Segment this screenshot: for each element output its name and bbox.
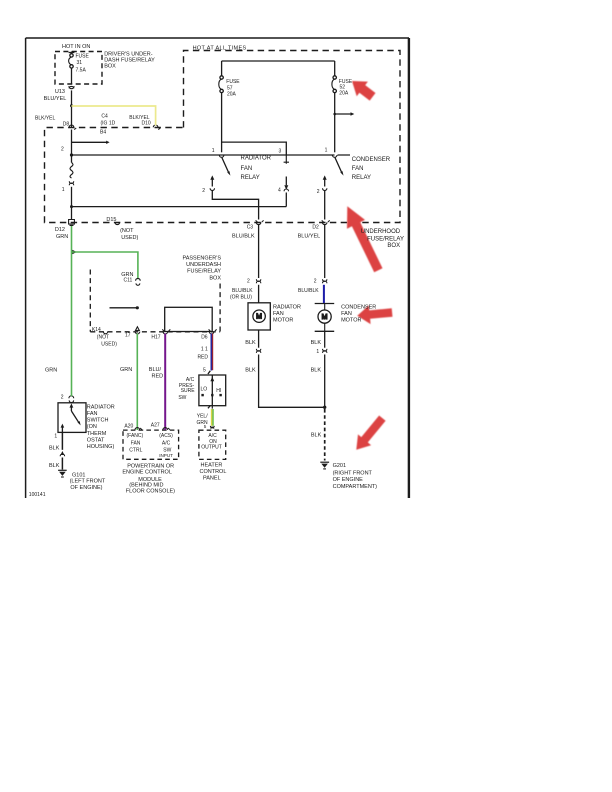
- svg-text:UNDERDASH: UNDERDASH: [186, 262, 221, 268]
- svg-text:D6: D6: [201, 335, 208, 341]
- connector D on underhood box bottom: [322, 220, 330, 224]
- svg-text:31: 31: [77, 60, 83, 66]
- svg-text:1: 1: [212, 148, 215, 154]
- svg-text:BLK: BLK: [311, 368, 322, 374]
- wire BLU/YEL down to D8: [71, 90, 73, 127]
- svg-text:FAN: FAN: [352, 166, 364, 172]
- fuse 57 20A: [219, 61, 224, 152]
- annotation red arrow at underhood box: [347, 206, 383, 272]
- node: BLK junction: [323, 406, 326, 409]
- svg-text:HI: HI: [216, 388, 221, 394]
- svg-text:BLK: BLK: [49, 463, 60, 469]
- svg-text:BLU/YEL: BLU/YEL: [44, 96, 67, 102]
- connector A27 on ECM box: [163, 428, 170, 430]
- inline connector below coil: [69, 181, 73, 185]
- svg-text:C3: C3: [247, 224, 254, 230]
- svg-text:1: 1: [54, 433, 57, 439]
- svg-text:BLU/BLK: BLU/BLK: [232, 233, 255, 239]
- wire GRN from connector 17 to ECM pin A20: [136, 334, 138, 431]
- svg-text:BLU/: BLU/: [149, 367, 162, 373]
- svg-text:FUSE: FUSE: [76, 54, 90, 60]
- svg-text:CONDENSER: CONDENSER: [341, 304, 376, 310]
- svg-text:YEL/: YEL/: [197, 414, 208, 420]
- radiator fan relay pin2 contact arrow: [211, 179, 213, 187]
- fuse F-driver 7.5A in driver's box: [69, 52, 75, 85]
- border frame: [26, 38, 409, 498]
- svg-text:PANEL: PANEL: [203, 475, 221, 481]
- node: rail junction at relay coil: [70, 153, 73, 156]
- svg-text:HOT AT ALL TIMES: HOT AT ALL TIMES: [193, 45, 247, 51]
- joint connector C1: [136, 278, 141, 285]
- svg-text:4: 4: [278, 188, 281, 194]
- svg-text:(NOT: (NOT: [97, 334, 109, 340]
- svg-text:1: 1: [316, 349, 319, 355]
- pin4 contact arrow (down): [285, 177, 287, 186]
- connector A20 on ECM box: [135, 428, 142, 430]
- annotation red arrow at fuse 52: [352, 81, 376, 101]
- inline connector on YEL/GRN wire: [210, 426, 214, 429]
- connector D6 on passenger box: [209, 329, 217, 334]
- wire BLU/RED from D6 to A/C pressure switch: [210, 334, 212, 371]
- svg-text:BOX: BOX: [387, 243, 400, 249]
- svg-text:CONTROL: CONTROL: [200, 469, 227, 475]
- svg-text:FAN: FAN: [273, 311, 284, 317]
- svg-text:BOX: BOX: [209, 276, 221, 282]
- wire pin2 to C connector: [212, 191, 258, 220]
- svg-text:U13: U13: [55, 89, 65, 95]
- svg-text:(ACS): (ACS): [159, 433, 173, 439]
- svg-text:FAN: FAN: [131, 441, 141, 447]
- radiator fan switch S1: [58, 403, 86, 433]
- connector U13 at driver's box bottom: [69, 86, 74, 89]
- wire BLK below switch: [61, 432, 63, 449]
- wire YEL/GRN below pressure switch: [211, 409, 213, 426]
- driver's under-dash fuse/relay box (dashed): [55, 52, 102, 85]
- rail wire BLK/YEL y=155: [72, 154, 351, 156]
- ground G101: [58, 470, 67, 477]
- svg-text:BOX: BOX: [104, 63, 116, 69]
- svg-text:OF ENGINE: OF ENGINE: [333, 477, 364, 483]
- annotation red arrow at ground G201: [356, 416, 385, 450]
- connector D10 on underhood box: [153, 125, 160, 130]
- ECM dashed box: [123, 430, 179, 459]
- svg-text:RADIATOR: RADIATOR: [273, 304, 301, 310]
- underhood fuse/relay box (dashed outline): [45, 51, 401, 223]
- wire BLK dashed to ground G201: [324, 409, 326, 461]
- svg-text:B4: B4: [100, 130, 106, 136]
- svg-text:5: 5: [203, 368, 206, 374]
- svg-text:17: 17: [125, 332, 131, 338]
- wire GRN branch to joint connector C1: [72, 252, 138, 279]
- svg-text:FAN: FAN: [241, 166, 253, 172]
- svg-text:OSTAT: OSTAT: [87, 437, 105, 443]
- svg-text:C11: C11: [124, 278, 133, 284]
- svg-text:RADIATOR: RADIATOR: [241, 156, 272, 162]
- svg-text:FUSE: FUSE: [226, 79, 240, 85]
- svg-text:20A: 20A: [227, 91, 237, 97]
- svg-text:100141: 100141: [29, 492, 46, 498]
- connector D8 on underhood box: [69, 125, 76, 130]
- node: junction with relay common wire: [70, 205, 73, 208]
- connector below pressure switch: [208, 406, 212, 409]
- relay block box in passenger box: [165, 307, 213, 331]
- wire relay common y=206.6: [72, 206, 287, 208]
- svg-text:2: 2: [202, 188, 205, 194]
- wire BLK below radiator fan motor: [258, 330, 260, 348]
- svg-text:GRN: GRN: [45, 368, 57, 374]
- wire D8 down into underhood box: [71, 130, 73, 163]
- radiator fan relay arm: [222, 158, 229, 174]
- node: yellow tap junction: [70, 104, 73, 107]
- annotation red arrow at condenser fan motor: [357, 305, 392, 324]
- svg-text:K14: K14: [92, 327, 101, 333]
- svg-text:2: 2: [317, 189, 320, 195]
- svg-text:FAN: FAN: [87, 411, 98, 417]
- svg-text:BLK: BLK: [49, 446, 60, 452]
- svg-text:(OR BLU): (OR BLU): [230, 294, 252, 300]
- svg-text:CTRL: CTRL: [129, 448, 142, 454]
- svg-text:3: 3: [279, 149, 282, 155]
- svg-text:(IG 1D: (IG 1D: [101, 121, 116, 127]
- wire stub B4 with arrow: [72, 141, 107, 143]
- A/C ON OUTPUT dashed box (heater control panel): [199, 430, 226, 459]
- svg-text:D10: D10: [142, 121, 151, 127]
- wire coil to D12: [71, 187, 73, 220]
- radiator fan switch connector: [69, 396, 74, 403]
- svg-text:BLK: BLK: [245, 368, 256, 374]
- svg-text:SURE: SURE: [181, 388, 196, 394]
- radiator fan motor M1: [248, 303, 270, 330]
- connector C on underhood box bottom: [256, 220, 264, 224]
- svg-text:(BEHIND MID: (BEHIND MID: [129, 482, 163, 488]
- svg-text:OF ENGINE): OF ENGINE): [70, 485, 102, 491]
- svg-text:(LEFT FRONT: (LEFT FRONT: [70, 479, 106, 485]
- svg-text:2: 2: [61, 395, 64, 401]
- radiator fan relay coil (squiggle): [70, 163, 73, 179]
- connector K14 (not used) on passenger box: [103, 332, 107, 334]
- svg-text:INPUT: INPUT: [159, 453, 173, 458]
- svg-text:HOUSING): HOUSING): [87, 444, 115, 450]
- ground G201: [320, 462, 329, 469]
- svg-text:MOTOR: MOTOR: [273, 317, 293, 323]
- wire BLU/BLK to radiator fan motor: [258, 225, 260, 279]
- svg-text:D2: D2: [312, 224, 319, 230]
- condenser fan motor M2: [315, 304, 335, 332]
- svg-text:SWITCH: SWITCH: [87, 418, 109, 424]
- svg-text:1: 1: [62, 187, 65, 193]
- wire pin2 to D connector: [324, 191, 326, 220]
- connector D12 on underhood box bottom: [69, 220, 75, 226]
- svg-text:G201: G201: [333, 463, 346, 469]
- connector D15 (not used): [115, 222, 120, 224]
- svg-text:5: 5: [204, 424, 207, 429]
- svg-text:(RIGHT FRONT: (RIGHT FRONT: [333, 470, 373, 476]
- svg-text:FUSE/RELAY: FUSE/RELAY: [187, 268, 221, 274]
- svg-text:BLK: BLK: [311, 433, 322, 439]
- condenser relay pin2 contact arrow: [324, 179, 326, 187]
- svg-text:D8: D8: [63, 122, 70, 128]
- svg-text:(NOT: (NOT: [120, 228, 134, 234]
- wire BLU/YEL to condenser fan motor: [324, 225, 326, 279]
- svg-text:GRN: GRN: [56, 234, 68, 240]
- svg-text:RED: RED: [152, 374, 164, 380]
- svg-text:BLU/BLK: BLU/BLK: [298, 288, 319, 294]
- svg-text:PASSENGER'S: PASSENGER'S: [182, 255, 221, 261]
- passenger's underdash fuse/relay box (dashed, open top): [89, 270, 91, 332]
- svg-text:USED): USED): [101, 342, 117, 348]
- connector H17 on passenger box: [162, 329, 170, 334]
- node: green tap arrow: [72, 250, 76, 255]
- svg-text:HOT IN ON: HOT IN ON: [62, 44, 90, 50]
- svg-text:M: M: [256, 314, 262, 321]
- node: tap on fuse52 wire: [333, 113, 336, 116]
- connector 17 (green wire) on passenger box: [135, 327, 140, 334]
- svg-text:USED): USED): [121, 235, 138, 241]
- svg-text:ENGINE CONTROL: ENGINE CONTROL: [122, 469, 172, 475]
- bus wire HOT AT ALL TIMES: [222, 60, 335, 62]
- svg-text:FLOOR CONSOLE): FLOOR CONSOLE): [126, 489, 175, 495]
- svg-text:BLK: BLK: [311, 340, 322, 346]
- svg-text:RELAY: RELAY: [352, 175, 371, 181]
- svg-text:C4: C4: [101, 113, 108, 119]
- svg-text:A20: A20: [124, 423, 133, 429]
- wire branch fuse57 to pin3: [222, 142, 287, 155]
- fuse 52 20A: [332, 61, 337, 152]
- inline connector on condenser fan motor wire: [322, 279, 326, 283]
- svg-text:(ON: (ON: [87, 424, 97, 430]
- pin3-pin4 link of condenser relay coil: [284, 155, 289, 164]
- inline connector 1: [322, 349, 326, 353]
- svg-text:FAN: FAN: [341, 311, 352, 317]
- svg-text:7.5A: 7.5A: [76, 68, 87, 74]
- svg-text:M: M: [322, 314, 328, 321]
- svg-text:1: 1: [325, 148, 328, 154]
- svg-text:1 1: 1 1: [201, 346, 208, 352]
- radiator fan relay contact pivot: [219, 155, 224, 157]
- svg-text:BLU/BLK: BLU/BLK: [232, 288, 253, 294]
- inline connector: [256, 349, 260, 353]
- A/C pressure switch S2: [199, 371, 226, 406]
- svg-text:HEATER: HEATER: [201, 462, 223, 468]
- short jumper wire with node in passenger box: [110, 307, 137, 309]
- svg-text:RED: RED: [197, 354, 208, 360]
- svg-text:2: 2: [314, 278, 317, 284]
- svg-text:THERM: THERM: [87, 431, 107, 437]
- svg-text:A/C: A/C: [162, 441, 171, 447]
- svg-text:D15: D15: [106, 217, 116, 223]
- svg-text:20A: 20A: [339, 90, 349, 96]
- wire YEL from BLU/YEL tap: [72, 106, 156, 126]
- svg-text:SW: SW: [178, 395, 186, 401]
- svg-text:FUSE/RELAY: FUSE/RELAY: [367, 236, 404, 242]
- svg-text:A27: A27: [151, 423, 160, 429]
- wire BLK below condenser fan motor: [324, 331, 326, 347]
- condenser fan relay arm: [335, 158, 342, 174]
- svg-text:(FANC): (FANC): [127, 433, 144, 439]
- svg-text:H17: H17: [151, 335, 160, 341]
- inline connector on BLK wire: [61, 451, 65, 455]
- svg-text:RELAY: RELAY: [241, 175, 260, 181]
- svg-text:GRN: GRN: [120, 367, 132, 373]
- svg-text:MOTOR: MOTOR: [341, 317, 361, 323]
- svg-text:OUTPUT: OUTPUT: [201, 444, 222, 450]
- svg-text:RADIATOR: RADIATOR: [87, 405, 115, 411]
- svg-text:UNDERHOOD: UNDERHOOD: [361, 229, 401, 235]
- wire PUR from H17 to ECM pin A27: [164, 334, 166, 431]
- condenser fan relay contact pivot: [332, 155, 337, 157]
- wire GRN from D12 down to radiator fan switch: [71, 226, 73, 396]
- wire stub with arrow (to A/C circuit): [335, 113, 351, 115]
- svg-text:D12: D12: [55, 227, 65, 233]
- svg-text:BLK: BLK: [245, 340, 256, 346]
- svg-text:BLU/YEL: BLU/YEL: [298, 233, 321, 239]
- svg-text:LO: LO: [201, 387, 208, 393]
- inline connector on radiator fan motor wire: [256, 279, 260, 283]
- svg-text:BLK/YEL: BLK/YEL: [35, 115, 56, 121]
- svg-text:2: 2: [61, 147, 64, 153]
- svg-text:2: 2: [247, 278, 250, 284]
- svg-text:COMPARTMENT): COMPARTMENT): [333, 484, 378, 490]
- svg-text:CONDENSER: CONDENSER: [352, 157, 391, 163]
- wire BLU segment above condenser fan motor: [323, 285, 325, 303]
